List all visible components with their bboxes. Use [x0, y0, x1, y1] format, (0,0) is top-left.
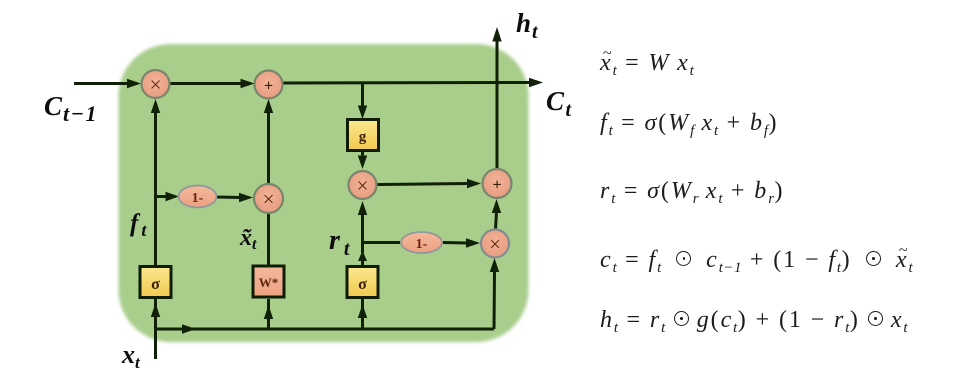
wire: 1- ellipse to multiply node (left column 2) [217, 193, 254, 202]
svg-text:ht: ht [516, 8, 539, 43]
node: 1- ellipse (left) [179, 186, 217, 208]
box: W* candidate weights (salmon square) [253, 266, 284, 297]
wire: bottom bus rising into output multiply node [490, 258, 499, 329]
wire: x(t) input rising to sigma-1 with junction [151, 299, 160, 359]
wire: bottom bus from x(t) junction to the right with mid arrowhead [156, 324, 495, 333]
svg-text:Ct−1: Ct−1 [44, 91, 98, 126]
wire: g box down into tanh-multiply node [358, 151, 367, 169]
svg-text:×: × [357, 174, 369, 198]
svg-text:+: + [492, 177, 501, 194]
svg-text:σ: σ [358, 276, 367, 293]
node: output add circle (+) right [483, 169, 512, 198]
wire: column-2 multiply node up into add node [264, 99, 273, 184]
svg-text:1-: 1- [416, 237, 428, 252]
wire: bottom bus branch up into sigma-2 box [358, 299, 367, 329]
wire: branch down from C line into g box [358, 83, 367, 119]
node: forget multiply circle (x) on C line [142, 70, 170, 98]
node: tanh multiply circle (x) middle [349, 171, 377, 199]
wire: multiply node to add node [169, 79, 255, 88]
node: output multiply circle (x) right [481, 230, 509, 258]
wire: column-1 vertical from sigma up into multiply node [151, 99, 160, 266]
node: multiply circle (x) column 2 [254, 184, 283, 213]
svg-text:xt: xt [121, 340, 141, 372]
wire: r branch right into 1- ellipse (right) [363, 241, 401, 244]
box: sigma-1 (forget gate, yellow square) [140, 267, 171, 298]
wire: output multiply node up into output add node [492, 199, 501, 229]
wire: tanh-multiply node right into output add node [377, 179, 481, 188]
equation 4: cell state update [600, 247, 913, 274]
box: g activation (yellow square) [348, 120, 379, 151]
wire: right 1- ellipse into output multiply node [443, 238, 480, 247]
svg-text:W*: W* [259, 275, 279, 290]
equation 3: r gate [600, 178, 784, 205]
svg-text:g: g [359, 129, 367, 145]
svg-text:σ: σ [151, 276, 160, 293]
node: add circle (+) on C line [255, 71, 283, 99]
cell body (green rounded rectangle) [119, 44, 529, 342]
wire: C(t-1) input line into multiply node [74, 79, 141, 88]
box: sigma-2 (r gate, yellow square) [347, 267, 378, 298]
wire: W* box up into column-2 multiply node [267, 213, 270, 266]
svg-text:Ct: Ct [546, 86, 573, 121]
node: 1- ellipse (right) [401, 232, 442, 253]
wire: add node to C(t) output arrow [283, 78, 544, 87]
svg-text:×: × [489, 232, 501, 256]
wire: bottom bus branch up into W* box [264, 299, 273, 329]
wire: column-3 vertical sigma up to tanh-multiply with junction arrowhead [358, 201, 367, 266]
equation 1: x-tilde = W x [600, 50, 694, 77]
svg-text:×: × [263, 187, 275, 211]
wire: branch right into 1- ellipse (left) [156, 192, 180, 201]
svg-text:+: + [264, 78, 273, 95]
equation 2: f gate [600, 110, 778, 137]
equation 5: output [600, 307, 908, 334]
svg-text:×: × [150, 73, 162, 97]
svg-text:1-: 1- [192, 191, 204, 206]
wire: output add node up through C line to h(t) arrow [492, 27, 501, 168]
